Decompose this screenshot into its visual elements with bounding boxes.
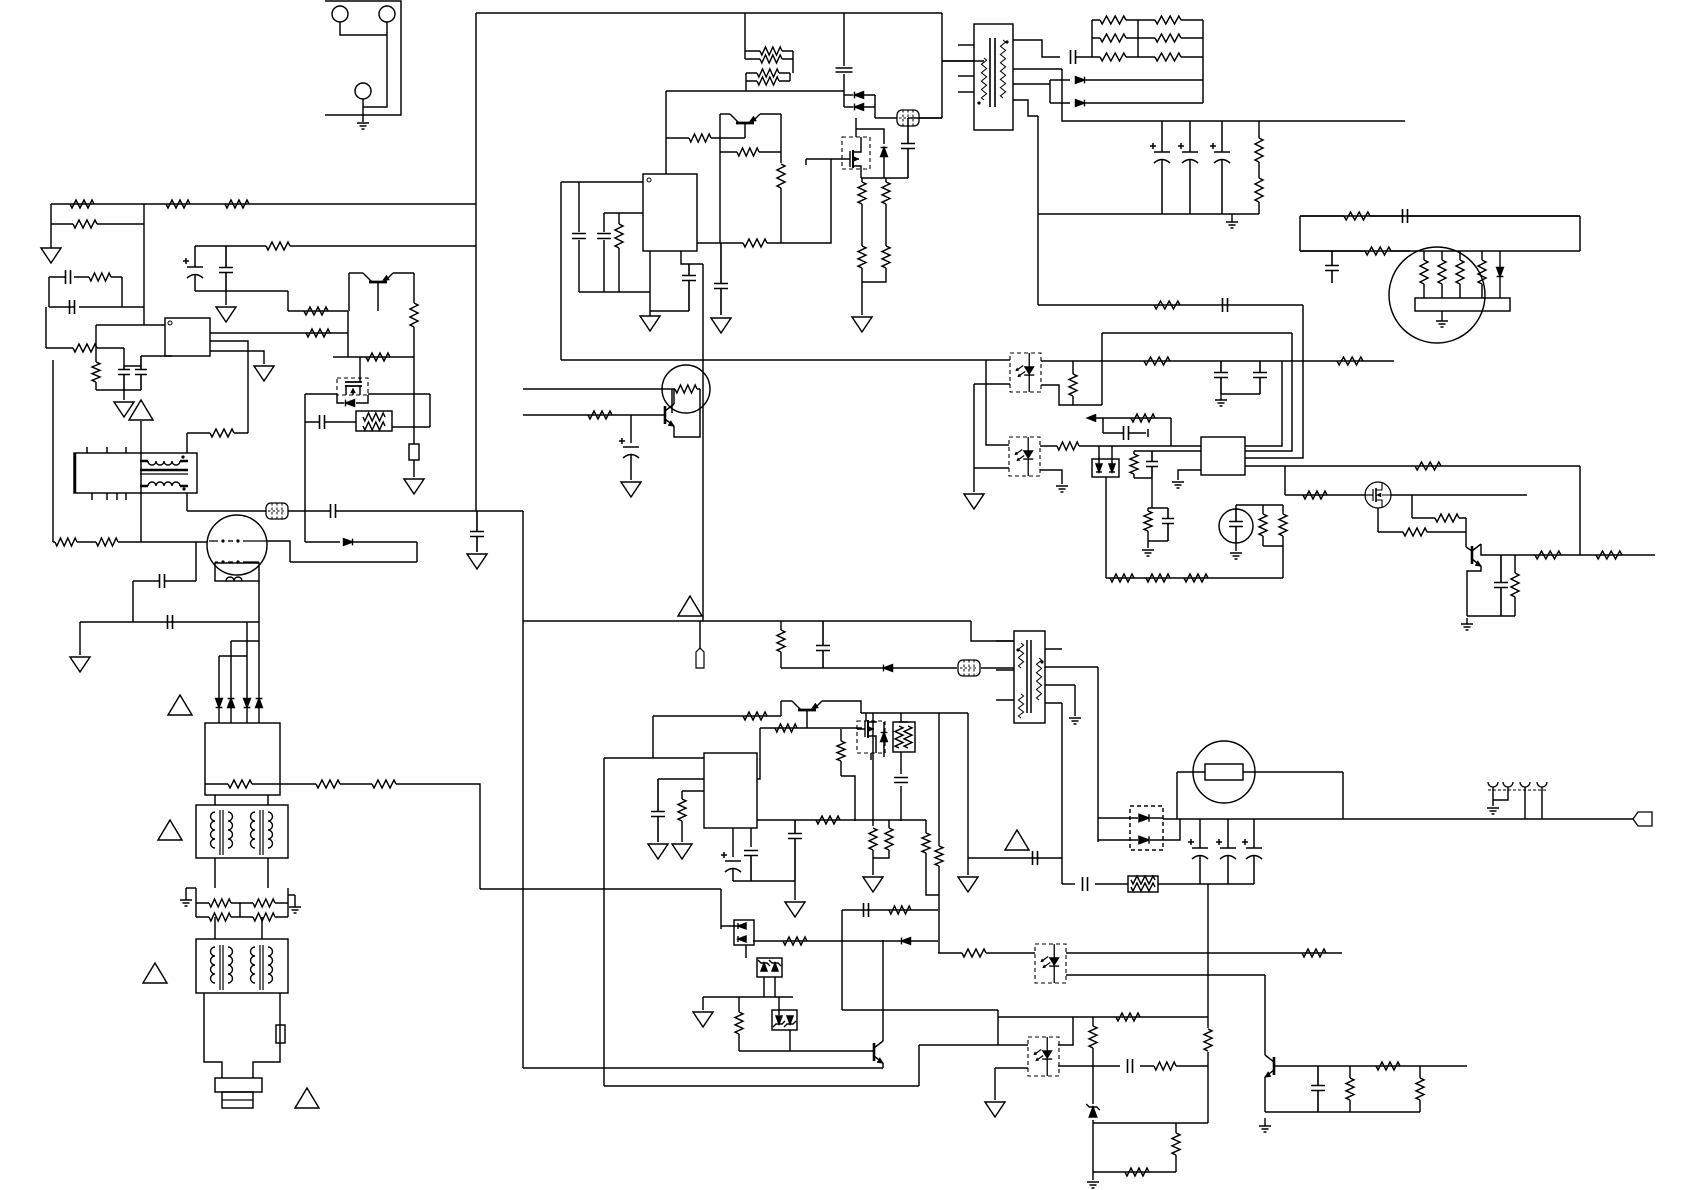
wire y562 <box>290 561 417 563</box>
wire T5 feed R <box>261 917 263 939</box>
pin marker U2 <box>647 178 651 182</box>
resistor R7 <box>1255 121 1263 162</box>
wire T5 feed L <box>214 917 216 939</box>
resistor R62 <box>1040 442 1090 450</box>
resistor R29 <box>858 178 866 204</box>
wire T4 top L <box>214 795 216 805</box>
wire pair lead <box>345 421 356 423</box>
resistor R103 <box>1346 1066 1354 1112</box>
wire y1010 drop <box>997 1010 999 1045</box>
wire gate feed <box>757 728 760 779</box>
transformer T2 body <box>1014 631 1045 723</box>
wire fuse out drop <box>1342 772 1344 819</box>
resistor R28 <box>722 239 781 247</box>
wire R-stack left rail <box>744 51 746 59</box>
connector J1 pin 2 <box>379 6 395 22</box>
cap pol tick <box>1147 429 1149 437</box>
T3 winding bot bar <box>140 485 188 487</box>
wire gnd stem x124 <box>123 390 125 400</box>
diode D18 <box>1139 836 1149 844</box>
wire D3 bottom <box>883 157 885 178</box>
resistor pair box RP3 <box>1128 876 1158 892</box>
wire x305 vert <box>304 394 306 542</box>
capacitor C20 <box>135 356 147 390</box>
resistor pair box RP1 <box>356 411 392 431</box>
wire rail y204 <box>51 203 476 205</box>
wire U3 left pin1 <box>1134 450 1201 452</box>
T2 pin L1 <box>996 640 1014 642</box>
wire opto1 out <box>1041 385 1102 405</box>
wire y622 gnd stem <box>79 622 81 655</box>
resistor R66 <box>1144 508 1152 541</box>
capacitor C18 <box>219 246 233 291</box>
wire r85 bottom <box>873 850 889 858</box>
warning W3 <box>158 820 182 840</box>
resistor R59 <box>1069 361 1077 405</box>
wire y495 right <box>1391 494 1527 496</box>
wire bank right rail <box>1202 20 1204 103</box>
wire x901 down <box>900 752 902 774</box>
T2 winding L1 <box>1018 643 1023 668</box>
capacitor C12 <box>682 264 696 311</box>
wire Q3 left leg <box>349 272 363 274</box>
wire x417 <box>416 542 418 562</box>
resistor pair box RP2 <box>893 722 915 752</box>
wire T2 out <box>1061 703 1063 884</box>
capacitor C44 <box>864 903 869 917</box>
capacitor C39 <box>1033 851 1038 865</box>
diode D10 <box>228 699 235 708</box>
capacitor C19 <box>118 366 130 390</box>
zener pair ZP2 <box>772 1010 797 1030</box>
wire caps bottom <box>1221 393 1260 395</box>
resistor R5 <box>1138 34 1203 42</box>
T3 bot pin3 <box>116 493 118 500</box>
transistor Q1 <box>736 122 754 125</box>
capacitor C2 <box>1178 121 1198 214</box>
wire y884 b <box>1095 883 1128 885</box>
wire y1068 <box>523 1067 883 1069</box>
ground J1 <box>357 123 369 129</box>
wire x604 long <box>603 758 605 1086</box>
wire J1 pin1 <box>340 22 387 35</box>
wire U1 feed vert <box>95 325 97 348</box>
wire U1 out3 <box>210 341 248 433</box>
wire sense chain a <box>861 204 863 246</box>
resistor R81 <box>895 726 903 748</box>
wire Q4 source line <box>305 393 337 395</box>
wire y1086 up <box>918 1045 920 1086</box>
T2 winding R <box>1036 658 1041 700</box>
T2 core <box>1027 640 1031 713</box>
wire bank left rail <box>1091 20 1093 57</box>
T3 bot pin1 <box>91 493 93 500</box>
T3 winding bottom <box>148 482 180 486</box>
resistor R10 <box>1300 247 1410 255</box>
wire x133 down <box>132 581 134 622</box>
IC U1 controller <box>165 318 210 356</box>
wire y1172 <box>1093 1171 1176 1173</box>
K1 coil <box>226 577 242 581</box>
resistor R94 <box>938 949 1035 957</box>
capacitor C4 <box>1393 209 1580 223</box>
T4 winding L1 <box>211 812 216 848</box>
T1 dot 2 <box>977 101 980 104</box>
resistor R99 <box>1204 1029 1212 1051</box>
wire y1066 line <box>1274 1065 1467 1067</box>
wire x939 <box>938 713 940 846</box>
wire U4 top pin line <box>604 757 704 759</box>
resistor R97 <box>1140 1062 1208 1070</box>
resistor R90 <box>1131 883 1155 891</box>
wire rc bottom <box>1134 477 1152 479</box>
K1 dot3 <box>221 560 224 563</box>
wire x873 <box>872 713 874 826</box>
wire U4 pin r <box>682 790 704 792</box>
relay circle K1 <box>207 515 267 575</box>
plug tip line <box>222 1099 253 1101</box>
T2 pin R4 <box>1045 702 1062 704</box>
IC U4 PWM <box>704 753 757 828</box>
wire prong gnd <box>1492 800 1494 806</box>
resistor R56 <box>777 621 785 652</box>
resistor R57 <box>672 385 700 393</box>
resistor R37 <box>74 273 122 281</box>
capacitor C27 <box>1214 361 1228 394</box>
T2 dot2 <box>1040 660 1043 663</box>
ground G15 <box>621 482 641 497</box>
wire primary top <box>942 60 984 62</box>
wire R-stack right rail <box>792 51 794 73</box>
wire T3 primary top <box>186 433 188 453</box>
wire y881 <box>733 880 795 882</box>
wire sense chain b <box>885 204 887 246</box>
diode D17 <box>1139 814 1149 822</box>
diode D3 body <box>881 148 888 157</box>
wire T4 pins down R <box>267 858 269 888</box>
T2 pin R2 <box>1045 666 1098 668</box>
ferrite bead FB3 <box>958 660 980 676</box>
wire top rail <box>476 12 942 14</box>
resistor R82 <box>904 726 912 748</box>
prong dashed link <box>1488 789 1548 791</box>
wire x1285 drop <box>1284 466 1286 495</box>
T3 core <box>140 469 188 472</box>
wire Q2 drain link <box>856 129 884 144</box>
resistor R54 <box>196 913 240 921</box>
wire U1 top pin line <box>96 324 165 326</box>
wire top rail drop <box>941 13 943 118</box>
ground G2 <box>711 318 731 333</box>
resistor R1 <box>1092 16 1138 24</box>
wire x523 long <box>522 511 524 1068</box>
wire primary feed <box>942 60 974 62</box>
diode D9 <box>216 699 223 708</box>
T5 winding R1 <box>251 947 256 983</box>
wire snubber to diode node <box>843 74 845 107</box>
wire x721 down <box>720 889 722 929</box>
capacitor C40 <box>1188 819 1208 884</box>
K1 dot2 <box>236 539 239 542</box>
diode D11 <box>244 699 251 708</box>
wire net bottom <box>79 306 144 308</box>
T4 winding R1 <box>251 812 256 848</box>
wire y716 <box>653 715 781 717</box>
wire D17 out <box>1150 817 1163 819</box>
wire output bus <box>1163 818 1633 820</box>
wire bank row2 stub <box>1091 37 1093 39</box>
wire Q10 drain <box>865 713 867 721</box>
wire circle right <box>266 541 290 562</box>
resistor R9 <box>1300 212 1393 220</box>
wire y1086 <box>604 1085 919 1087</box>
wire r100 down <box>1175 1164 1177 1172</box>
wire y1010 <box>842 1009 998 1011</box>
wire fb top <box>1300 215 1580 217</box>
capacitor C38 <box>788 820 802 881</box>
wire Q8 right leg <box>822 701 861 713</box>
capacitor C46 <box>1311 1066 1325 1112</box>
resistor R6 <box>1138 53 1203 61</box>
wire bank mid rail <box>1137 20 1139 57</box>
ferrite bead FB1 <box>897 110 919 126</box>
zener Z5 <box>1089 1107 1097 1117</box>
wire y716 corner <box>652 716 654 758</box>
wire z2 down <box>774 977 776 997</box>
wire sense bottom <box>862 268 886 282</box>
resistor R8 <box>1255 178 1263 214</box>
wire bead line 2 <box>187 510 266 512</box>
T2 winding L2 <box>1018 694 1023 718</box>
dual diode DD3 <box>734 920 754 945</box>
resistor R95 <box>1302 949 1326 957</box>
wire bottom rail drop <box>1037 116 1039 305</box>
resistor R83 <box>816 816 840 824</box>
wire DD1 stub2 <box>1111 446 1113 464</box>
resistor R47 <box>53 538 92 546</box>
wire opto1 pin2 <box>974 383 1010 385</box>
resistor R30 <box>882 178 890 204</box>
T3 bot pin4 <box>125 493 127 500</box>
plug body <box>215 1078 262 1092</box>
diode D21 <box>902 938 911 945</box>
optocoupler PC2 <box>1009 437 1040 476</box>
T5 core2 <box>260 945 263 990</box>
T3 dot2 <box>182 487 185 490</box>
capacitor C16 <box>49 270 71 284</box>
transistor Q11 <box>1273 1057 1276 1075</box>
transformer T1 core <box>990 38 995 107</box>
zener Z2 <box>772 963 778 971</box>
wire rc2 bottom <box>1148 540 1168 542</box>
resistor R107 <box>1337 357 1363 365</box>
annotation circle A4 <box>1219 509 1253 543</box>
connector plug P1 <box>1633 812 1652 826</box>
T4 core1 <box>220 810 223 855</box>
resistor R25 <box>720 148 781 156</box>
IC U2 PWM controller <box>643 174 697 251</box>
wire Q1 collector leg <box>720 113 730 115</box>
wire y333 <box>1102 332 1292 334</box>
wire sense gnd stem <box>861 282 863 315</box>
wire y359 long <box>561 359 1010 361</box>
T3 winding top <box>148 461 180 465</box>
resistor R71 <box>1146 574 1170 582</box>
resistor R27 <box>615 213 623 292</box>
T5 core1 <box>220 945 223 990</box>
diode D1 <box>855 92 864 99</box>
T2 pin L2 <box>996 669 1014 671</box>
resistor R23 <box>746 77 790 85</box>
wire x259 down <box>258 581 260 698</box>
transformer T3 body <box>74 453 197 493</box>
wire Q5 cap stem <box>630 415 632 443</box>
capacitor C30 <box>1103 426 1146 440</box>
wire base link <box>1466 547 1472 551</box>
wire D17 in <box>1098 817 1138 819</box>
wire DD1 stub1 <box>1098 446 1100 464</box>
T3 top pin3 <box>125 447 127 453</box>
resistor R51 <box>355 780 420 788</box>
wire pcap bottom <box>195 290 288 292</box>
wire Q3 coll down <box>347 311 349 357</box>
ground G30 <box>958 877 978 892</box>
ground G35 <box>1259 1118 1271 1132</box>
wire Q1 right vertical <box>780 114 782 163</box>
diode D19 <box>738 923 746 929</box>
resistor R2 <box>1092 34 1138 42</box>
wire Q2 source <box>860 169 862 178</box>
resistor R89 <box>1131 876 1155 884</box>
wire Q5 emitter down <box>674 413 700 437</box>
ground G26 <box>648 844 668 859</box>
wire opto4 gnd <box>994 1068 996 1100</box>
wire x842 <box>841 910 843 1010</box>
resistor R84 <box>869 828 877 850</box>
resistor R79 <box>775 724 797 732</box>
wire y910 <box>842 909 938 911</box>
wire gate line Q2 <box>806 158 842 160</box>
T2 pin R3 <box>1045 684 1075 686</box>
resistor R35 <box>225 200 249 208</box>
wire net left rail <box>48 277 50 307</box>
connector block J2 <box>1415 298 1510 311</box>
capacitor C3 <box>1210 121 1230 214</box>
wire x247 <box>246 622 248 698</box>
capacitor C1 <box>1150 121 1170 214</box>
annotation circle A1 <box>1389 247 1485 343</box>
wire x939 down <box>938 866 940 953</box>
wire prong2 <box>1493 787 1508 800</box>
ferrite bead FB2 <box>266 503 288 519</box>
wire rc2 top <box>1148 507 1168 509</box>
T1 right pin 4 <box>1013 100 1038 116</box>
dual diode DD1 <box>1092 459 1119 477</box>
resistor R100 <box>1172 1123 1180 1164</box>
ground G1 <box>640 313 660 331</box>
wire cap C20 top <box>141 355 172 357</box>
wire opto4 in <box>919 1044 1028 1046</box>
wire DD1 bottom <box>1105 477 1107 578</box>
capacitor C36 <box>651 779 665 842</box>
T3 winding top bar <box>140 460 188 462</box>
ground G29 <box>1069 718 1081 724</box>
filter box FL1 <box>205 723 280 795</box>
transformer T1 primary winding <box>981 58 986 100</box>
resistor R85 <box>885 820 893 850</box>
wire y622 line <box>80 621 259 623</box>
wire cap stub <box>1102 418 1104 433</box>
wire D16 top <box>883 722 885 732</box>
wire fb bottom <box>1300 250 1580 252</box>
connector J1 outline <box>325 1 401 115</box>
wire Q7 bottom <box>1467 615 1515 617</box>
wire y713 <box>861 712 968 714</box>
resistor R73 <box>1378 528 1466 536</box>
resistor R26 <box>777 164 785 243</box>
wire Q4 drain drop <box>359 357 361 380</box>
resistor R92 <box>735 997 743 1051</box>
T4 core2 <box>260 810 263 855</box>
wire opto3 out1 <box>1066 952 1342 954</box>
wire opto4 out2 <box>1058 1065 1120 1067</box>
wire y858 <box>968 857 1062 859</box>
resistor R78 <box>743 712 767 720</box>
resistor R52 <box>196 899 240 907</box>
K1 contact row1 <box>209 540 266 542</box>
diode D15 <box>1109 464 1115 472</box>
wire cap drop 1 <box>578 182 580 232</box>
wire T3 sec down <box>186 493 188 511</box>
wire Q4 out line <box>368 393 430 395</box>
warning W6 <box>678 596 702 616</box>
wire y668 <box>781 667 957 669</box>
wire Q7 emitter <box>1467 566 1481 616</box>
T1 right pin 1 <box>1013 40 1060 57</box>
ground G3 <box>852 317 872 332</box>
mosfet Q4 glyph <box>345 381 362 383</box>
resistor R12 <box>1438 251 1446 298</box>
wire y941 <box>753 940 938 942</box>
resistor R58 <box>588 411 612 419</box>
T1 right pin 3 <box>1013 83 1050 85</box>
wire rc chain <box>1151 478 1153 508</box>
transformer T4 body <box>196 805 288 858</box>
capacitor C41 <box>1216 819 1236 884</box>
wire plug right <box>253 993 280 1078</box>
wire fuse gnd <box>413 460 415 477</box>
wire Q9 collector <box>882 940 884 1041</box>
T3 bot pin2 <box>106 493 108 500</box>
wire snubber drop <box>843 13 845 66</box>
resistor R77 <box>1511 555 1519 616</box>
capacitor C24 <box>133 574 196 588</box>
resistor R67 <box>1259 505 1267 546</box>
diode D7 body <box>346 400 355 407</box>
wire drive corner <box>781 159 831 243</box>
IC U3 regulator <box>1201 437 1245 475</box>
wire y495 <box>1285 494 1365 496</box>
resistor R88 <box>678 791 686 842</box>
resistor R36 <box>51 220 144 228</box>
wire A2 left <box>523 388 672 390</box>
resistor R43 <box>187 429 248 437</box>
wire res top link <box>1236 504 1283 506</box>
wire D19 link <box>721 925 738 927</box>
resistor R31 <box>858 246 866 268</box>
capacitor C23 <box>470 511 484 552</box>
zener Z1 <box>761 963 767 971</box>
